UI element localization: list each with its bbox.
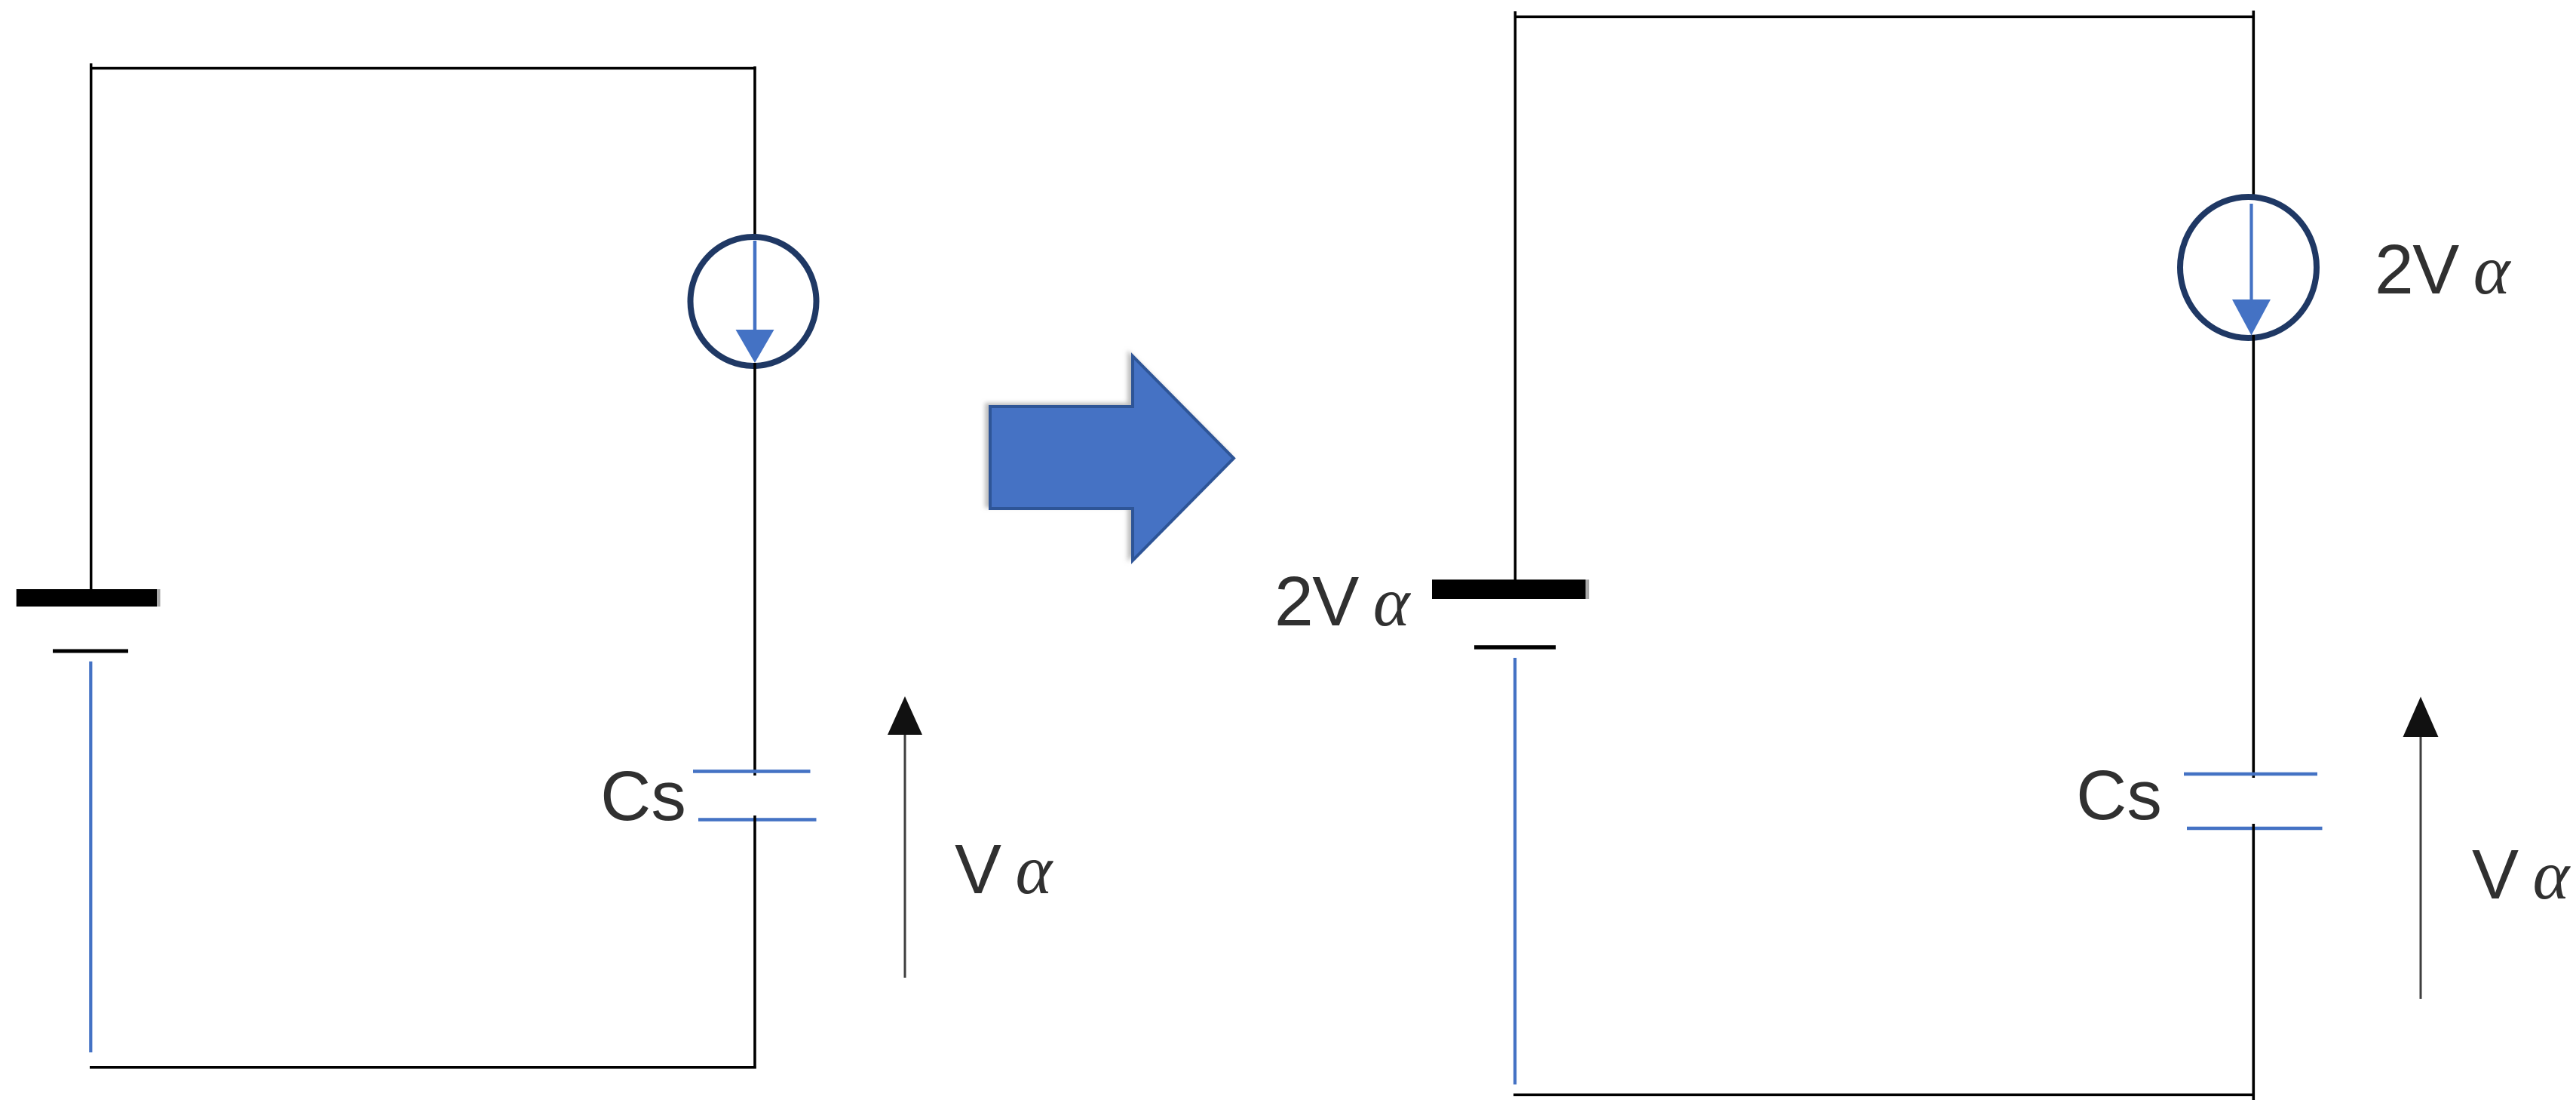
- wire blue (battery V2 negative to bottom rail): [1513, 658, 1516, 1085]
- svg-text:Cs: Cs: [2076, 756, 2162, 834]
- wire bottom rail left circuit: [90, 1066, 756, 1069]
- wire left vertical (top of battery V1 up to top rail): [90, 63, 93, 590]
- current source I1 arrow: [753, 241, 757, 332]
- wire right vertical middle segment (current source to capacitor): [2252, 335, 2256, 778]
- battery V2 negative plate (thin): [1474, 645, 1556, 650]
- capacitor Cs bottom plate: [698, 818, 817, 821]
- svg-text:2Vα: 2Vα: [1274, 562, 1412, 641]
- wire right vertical upper segment (top rail to current source): [753, 66, 756, 239]
- wire right vertical upper segment (top rail to current source): [2252, 11, 2256, 200]
- svg-text:2Vα: 2Vα: [2375, 230, 2512, 309]
- voltage arrow V alpha (right): [2420, 737, 2422, 999]
- capacitor Cs top plate: [693, 769, 811, 772]
- current source I1 circle: [691, 237, 817, 366]
- battery V1 negative plate (thin): [53, 650, 128, 653]
- capacitor Cs2 top plate: [2184, 772, 2317, 776]
- big blue arrow: [990, 356, 1234, 561]
- voltage arrow V alpha (left): [904, 735, 906, 978]
- wire right vertical lower segment (capacitor to bottom rail): [753, 815, 756, 1069]
- svg-text:Cs: Cs: [600, 757, 686, 835]
- current source I2 arrow: [2249, 204, 2252, 302]
- wire right vertical lower segment (capacitor to bottom rail): [2252, 824, 2256, 1100]
- wire blue (battery negative to bottom rail): [89, 662, 92, 1052]
- wire bottom rail right circuit: [1513, 1094, 2255, 1097]
- battery V1 positive plate (thick): [17, 589, 157, 607]
- current source I2 circle: [2180, 197, 2317, 338]
- battery V2 positive plate (thick): [1432, 579, 1586, 599]
- wire right vertical middle segment (current source to capacitor): [753, 363, 756, 776]
- wire top rail left circuit: [90, 67, 756, 70]
- capacitor Cs2 bottom plate: [2187, 827, 2323, 830]
- wire left vertical (top of battery V2 up to top rail): [1514, 11, 1517, 581]
- wire top rail right circuit: [1514, 15, 2255, 18]
